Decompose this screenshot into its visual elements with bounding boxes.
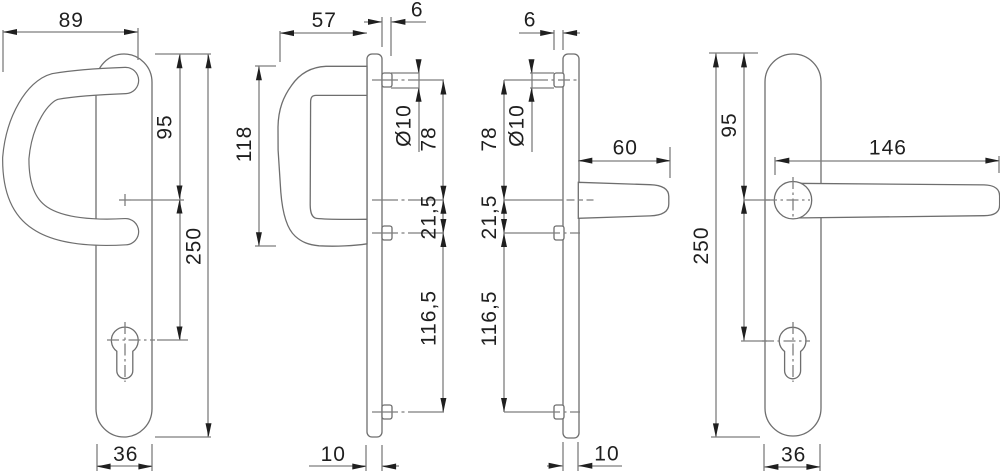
svg-text:89: 89 <box>59 9 84 32</box>
dim 6 extension lines <box>553 30 555 50</box>
svg-text:10: 10 <box>594 443 619 466</box>
svg-text:250: 250 <box>183 227 206 265</box>
dim diam10 line + outside arrows <box>418 62 420 152</box>
svg-text:95: 95 <box>718 112 741 137</box>
svg-text:21,5: 21,5 <box>418 195 441 240</box>
spindle centerline horizontal <box>765 199 810 201</box>
unlabeled dim (spindle to cylinder) line + arrows <box>179 200 181 340</box>
bottom extension line <box>711 436 760 438</box>
dim 118 extension stubs <box>255 65 276 67</box>
backplate (long plate, front) <box>96 54 152 437</box>
top extension line <box>709 52 758 54</box>
dim 10 line + outside arrows <box>309 465 366 467</box>
dim 146 line + arrows <box>775 160 999 162</box>
cylinder centerline horizontal <box>107 339 155 341</box>
cylinder extension line <box>157 339 188 341</box>
svg-text:36: 36 <box>781 443 806 466</box>
dim 6 extension lines <box>381 17 383 47</box>
dim 60 line + arrows <box>578 160 670 162</box>
dim diam10 line + outside arrows <box>531 62 533 152</box>
centerline bottom peg <box>504 411 550 413</box>
cylinder centerline horizontal <box>762 340 810 342</box>
svg-text:250: 250 <box>690 226 713 264</box>
centerline top peg <box>504 79 536 81</box>
bow handle profile outer silhouette <box>278 66 367 246</box>
svg-text:116,5: 116,5 <box>418 290 441 346</box>
svg-text:78: 78 <box>478 126 501 151</box>
svg-text:95: 95 <box>154 114 177 139</box>
dim 10 extension lines <box>562 442 564 471</box>
svg-text:116,5: 116,5 <box>478 291 501 347</box>
dim 21,5 line + arrows <box>442 200 444 233</box>
dim 250 line + arrows <box>207 54 209 437</box>
euro profile cylinder hole <box>111 327 138 378</box>
bow pull handle (tube) <box>16 81 126 233</box>
centerline spindle <box>372 199 417 201</box>
svg-text:78: 78 <box>418 126 441 151</box>
top extension line <box>155 53 211 55</box>
dim 118 line + arrows <box>258 66 260 246</box>
lever handle profile <box>578 182 669 218</box>
dim 95 line + arrows <box>179 54 181 200</box>
dim 116,5 line + arrows <box>442 233 444 412</box>
cylinder centerline vertical <box>124 322 126 382</box>
dim 21,5 line + arrows <box>503 200 505 233</box>
spindle cross mark <box>119 199 131 201</box>
fixing peg bottom <box>554 405 564 419</box>
backplate (edge-on) <box>563 54 579 438</box>
fixing peg bottom <box>382 405 392 419</box>
cylinder extension line <box>741 340 767 342</box>
bow handle profile inner edge <box>310 95 367 219</box>
dim 6 line + outside arrows <box>519 32 554 34</box>
cylinder centerline vertical <box>792 322 794 382</box>
dim 57 line + arrows <box>280 32 367 34</box>
spindle extension line <box>131 199 184 201</box>
fixing peg top <box>554 73 564 87</box>
dim 146 extension lines <box>774 157 776 175</box>
backplate (long plate, front) <box>765 54 821 436</box>
dim 78 line + arrows <box>442 80 444 200</box>
dim 57 extension line <box>279 31 281 62</box>
svg-text:21,5: 21,5 <box>478 195 501 240</box>
dim 89 line + arrows <box>3 31 138 33</box>
fixing peg top <box>382 73 392 87</box>
fixing peg middle <box>382 226 392 240</box>
centerline middle peg <box>372 232 417 234</box>
svg-text:Ø10: Ø10 <box>506 104 529 147</box>
dim diam10 extension lines <box>391 72 419 74</box>
centerline spindle <box>504 199 556 201</box>
euro profile cylinder hole <box>779 327 806 378</box>
fixing peg middle <box>554 226 564 240</box>
spindle extension line <box>744 199 770 201</box>
centerline bottom peg <box>372 411 417 413</box>
dim 89 extension lines <box>2 30 4 72</box>
dim 36 extension lines <box>96 444 98 471</box>
dim 95 line + arrows <box>743 53 745 200</box>
svg-text:36: 36 <box>113 443 138 466</box>
dim 36 line + arrows <box>97 465 152 467</box>
svg-text:57: 57 <box>312 9 337 32</box>
spindle centerline vertical <box>792 177 794 220</box>
lever grip <box>793 183 1000 218</box>
centerline middle peg <box>504 232 550 234</box>
svg-text:60: 60 <box>613 137 638 160</box>
dim 6 line + outside arrows <box>364 21 382 23</box>
dim 250 line + arrows <box>715 53 717 437</box>
bottom extension line <box>155 436 211 438</box>
lever neck circle <box>774 182 811 219</box>
svg-text:10: 10 <box>321 443 346 466</box>
dim 10 line + outside arrows <box>547 465 563 467</box>
unlabeled dim (spindle to cylinder) line + arrows <box>743 200 745 341</box>
svg-text:146: 146 <box>869 137 907 160</box>
dim diam10 extension lines <box>530 72 554 74</box>
backplate (edge-on) <box>367 54 382 437</box>
dim 78 line + arrows <box>503 80 505 200</box>
svg-text:6: 6 <box>524 9 537 32</box>
dim 60 extension line <box>669 147 671 178</box>
centerline top peg <box>372 79 417 81</box>
dim 116,5 line + arrows <box>503 233 505 412</box>
dim 10 extension lines <box>365 445 367 471</box>
svg-text:6: 6 <box>411 0 424 22</box>
svg-text:Ø10: Ø10 <box>393 104 416 147</box>
svg-text:118: 118 <box>233 126 256 162</box>
dim 36 extension lines <box>763 444 765 471</box>
dim 36 line + arrows <box>764 466 820 468</box>
